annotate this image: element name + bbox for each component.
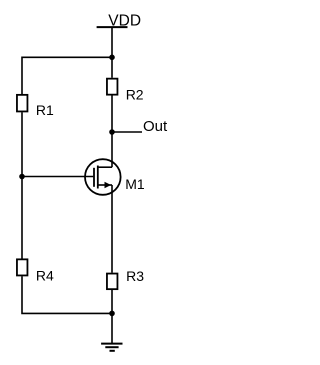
- svg-text:R1: R1: [36, 102, 54, 118]
- svg-text:Out: Out: [143, 118, 168, 135]
- node Out junction: [109, 129, 115, 135]
- wire source vertical to R3: [111, 185, 113, 273]
- wire ground stem: [111, 313, 113, 343]
- wire R2 to Out junction: [111, 96, 113, 133]
- transistor M1 channel bar: [97, 166, 99, 189]
- transistor M1 gate bar: [93, 168, 95, 187]
- node gate junction: [19, 174, 25, 180]
- resistor R2: [107, 79, 118, 95]
- ground bar 2: [105, 346, 118, 348]
- ground bar 1: [101, 343, 122, 345]
- ground bar 3: [110, 350, 115, 352]
- wire gate: [22, 176, 93, 178]
- transistor M1 source arrow: [105, 182, 112, 189]
- wire drain vertical: [111, 132, 113, 167]
- wire top junction to R2: [111, 57, 113, 78]
- resistor R1: [17, 95, 28, 112]
- wire Out: [112, 131, 142, 133]
- svg-text:R2: R2: [126, 86, 144, 102]
- wire VDD stub: [111, 27, 113, 57]
- svg-text:M1: M1: [125, 176, 145, 192]
- node junction top: [109, 55, 115, 61]
- power VDD rail: [97, 26, 128, 28]
- node bottom junction: [109, 311, 115, 317]
- svg-text:R4: R4: [36, 268, 54, 284]
- resistor R3: [107, 274, 118, 290]
- wire left bottom corner to rail: [22, 276, 112, 313]
- svg-text:R3: R3: [126, 268, 144, 284]
- wire R3 to bottom rail: [111, 290, 113, 313]
- transistor M1 body circle: [85, 159, 121, 195]
- transistor M1 source horizontal: [98, 184, 112, 186]
- wire left vertical R1 to R4: [21, 112, 23, 258]
- resistor R4: [17, 259, 28, 275]
- transistor M1 drain horizontal: [98, 166, 112, 168]
- wire top horizontal to left branch: [22, 57, 112, 94]
